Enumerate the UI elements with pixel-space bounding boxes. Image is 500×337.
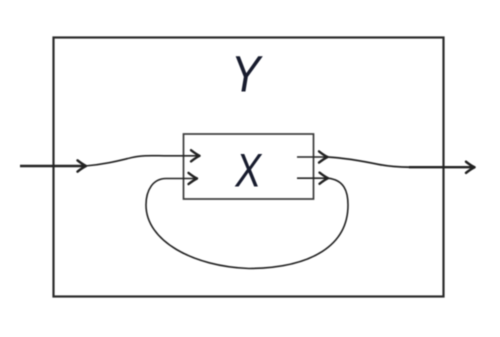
- arrowhead at X top-right port: [319, 151, 328, 162]
- arrowhead at X bottom-right port: [320, 173, 329, 184]
- wire: input S-curve to X top-left port: [85, 156, 199, 166]
- arrowhead at Y boundary crossing (input): [78, 160, 87, 171]
- svg-text:Y: Y: [231, 46, 263, 103]
- inner box X: [184, 134, 314, 199]
- wire: output segment crossing Y boundary: [409, 166, 474, 168]
- arrowhead at X top-left port: [191, 150, 200, 161]
- wire: X top-right output stub: [297, 156, 327, 158]
- wire: external input segment: [20, 165, 85, 167]
- arrowhead at X bottom-left port: [189, 173, 198, 184]
- outer box Y: [54, 38, 444, 297]
- wire: output S-curve inside Y: [328, 157, 411, 167]
- arrowhead at external output end: [466, 162, 475, 173]
- svg-text:X: X: [234, 145, 262, 197]
- wire: feedback loop from bottom-right port around to bottom-left port: [146, 178, 348, 268]
- wire: X bottom-right output stub: [297, 177, 327, 179]
